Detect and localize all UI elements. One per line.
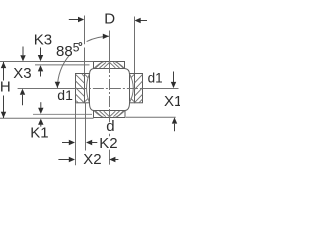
K2/X2 left extension line (socket face extended down) [75, 103, 77, 165]
left socket top edge to body [85, 73, 90, 75]
right socket hatch [135, 75, 143, 103]
svg-text:d1: d1 [57, 87, 73, 103]
H top arrow [1, 62, 6, 68]
dimension D right tail [140, 20, 147, 22]
dimension D right arrow [135, 18, 141, 23]
svg-text:d: d [106, 118, 114, 135]
bottom collar hatch left [96, 111, 110, 117]
svg-text:X3: X3 [13, 65, 31, 82]
X1 lower extension line [126, 116, 176, 118]
X3 down arrow [20, 55, 25, 61]
horizontal centerline (branch axis) [18, 88, 179, 90]
bottom collar (bottom spigot d) [94, 111, 126, 119]
K2 right arrow [86, 140, 92, 145]
X3 up arrow [20, 89, 25, 95]
top collar (socket ring, top spigot D) [94, 61, 125, 69]
X3 up arrow stem [22, 95, 24, 105]
angle arc left arrow [55, 82, 60, 88]
left socket bottom edge to body [85, 102, 90, 104]
d1 right down arrow stem [173, 72, 175, 83]
vertical centerline dash near K2 [109, 134, 111, 136]
vertical centerline (main axis) [109, 31, 111, 63]
H dimension line lower [3, 96, 5, 119]
svg-text:88: 88 [56, 43, 73, 60]
K3 upper extension line (collar top extended) [0, 61, 94, 63]
X2 dimension right tail [115, 159, 119, 161]
dimension D line left tail [69, 19, 79, 21]
K2 dimension left tail [62, 142, 70, 144]
left socket (branch d1 left) [76, 74, 90, 104]
K3 up arrow [38, 65, 43, 71]
right gap dome arc [130, 74, 134, 102]
svg-text:K1: K1 [30, 125, 48, 142]
H bottom extension line [0, 117, 94, 119]
dimension D right extension line [134, 17, 136, 74]
svg-text:X2: X2 [83, 151, 101, 168]
K1 up arrow [38, 119, 43, 125]
svg-text:K2: K2 [99, 135, 117, 152]
H dimension line upper [3, 62, 5, 81]
X2 dimension left tail [58, 159, 69, 161]
K3 down arrow [38, 55, 43, 61]
K3 down arrow stem [40, 48, 42, 56]
angle arc top arrow [103, 34, 109, 39]
K1 upper extension line [33, 113, 92, 115]
vertical centerline lower segment (X2 extension) [109, 150, 111, 165]
svg-text:d1: d1 [148, 71, 163, 86]
right socket bottom edge to body [130, 102, 135, 104]
X3 down arrow stem [22, 47, 24, 56]
bottom collar hatch right [110, 111, 124, 117]
d1 right down arrow [171, 82, 176, 88]
bottom collar inner dome arc [94, 111, 125, 119]
dimension D left arrow [78, 17, 84, 22]
K1 down arrow [38, 108, 43, 114]
dimension D left extension line (upper) [84, 16, 86, 45]
top collar inner dome arc [94, 61, 124, 69]
K1 up arrow stem [40, 125, 42, 127]
top collar hatch left [96, 62, 110, 68]
K2 right extension line [85, 103, 87, 151]
K3 lower extension line [35, 64, 90, 66]
degree circle [79, 43, 82, 46]
K1 down arrow stem [40, 102, 42, 108]
X2 left arrow [69, 157, 75, 162]
X1 up arrow stem [174, 124, 176, 132]
angle arc 88.5 lower segment [57, 55, 69, 88]
right socket (branch d1 right) [130, 74, 143, 103]
svg-text:D: D [104, 11, 115, 28]
angle arc 88.5 upper segment [87, 36, 110, 41]
svg-text:5: 5 [73, 41, 80, 55]
K3 up arrow stem [40, 71, 42, 76]
svg-text:K3: K3 [34, 31, 52, 48]
H bottom arrow [1, 112, 6, 118]
right socket top edge to body [130, 73, 135, 75]
top collar hatch right [110, 62, 124, 68]
dimension D left extension line (lower) [84, 48, 86, 74]
left gap dome arc [85, 74, 89, 102]
svg-text:H: H [0, 79, 11, 96]
left socket hatch [76, 74, 85, 103]
K2 left arrow [69, 140, 75, 145]
svg-text:X1: X1 [164, 93, 180, 110]
K2 dimension right tail [92, 142, 98, 144]
X1 up arrow [172, 117, 177, 123]
body (ball octagon) [90, 69, 130, 111]
X2 right arrow [109, 157, 115, 162]
